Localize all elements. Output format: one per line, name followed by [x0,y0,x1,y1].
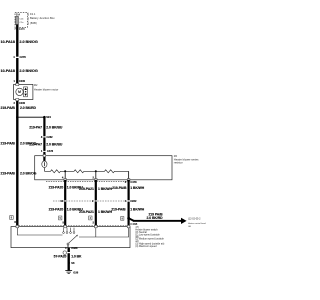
motor symbol M circle [16,88,23,95]
wire B segment C282 to switch box [95,202,97,227]
svg-text:C230: C230 [19,101,26,105]
wire W1 segment from BJB to connector C276 [16,25,18,57]
splice S6 [68,262,70,264]
svg-text:219-PA/B: 219-PA/B [1,141,16,145]
fuse F2.1 symbol [16,17,19,25]
tap wire to pin 3 [128,171,130,180]
switch internal rail [79,228,129,237]
svg-text:10-PA18: 10-PA18 [0,40,14,44]
wire W3 segment resistor to C282 [128,180,130,201]
in-line connector symbol [63,251,66,254]
svg-text:2.0 BK/BU: 2.0 BK/BU [46,126,63,130]
wire A segment C282 to switch box [64,202,66,227]
svg-text:C488: C488 [71,246,78,250]
switch output stub to W4 [67,245,69,248]
svg-text:C270: C270 [19,28,25,31]
connector C282 dashed line [53,200,127,202]
svg-text:M: M [18,90,21,94]
svg-text:2.0 BN/OG: 2.0 BN/OG [19,40,37,44]
motor box pin square bottom [16,99,19,101]
ground wire W4 segment 2 [68,253,70,270]
heater blower series resistor box [35,156,172,180]
svg-text:(1) Low speed (outside: (1) Low speed (outside [135,233,160,236]
svg-text:C282: C282 [46,135,53,139]
svg-text:(12-02-05-2: (12-02-05-2 [188,218,201,221]
svg-text:2.0 BK/RD: 2.0 BK/RD [20,106,37,110]
junction dot tap M2 [95,170,97,172]
svg-text:C478: C478 [47,149,54,153]
svg-text:219-PA21: 219-PA21 [79,210,94,214]
svg-text:219-PA/B: 219-PA/B [112,186,127,190]
svg-text:57-PA20: 57-PA20 [54,255,67,259]
svg-text:Battery Junction Box: Battery Junction Box [30,16,55,20]
svg-text:219-PA/B: 219-PA/B [111,208,126,212]
tap wire to pin 4 [64,171,66,180]
svg-text:30A: 30A [16,13,21,16]
wire A segment resistor to C282 [64,180,66,201]
svg-text:C282: C282 [130,199,137,203]
svg-text:219-PA20: 219-PA20 [49,185,64,189]
wire W2 segment S24 to C282 [43,117,45,136]
motor thermal element [24,87,28,97]
svg-text:resistor: resistor [174,161,183,165]
switch wiper lever [67,243,69,245]
switch internal stub from wire B [95,228,97,237]
svg-text:(BJB): (BJB) [30,21,37,25]
svg-text:C230: C230 [19,79,26,83]
svg-text:F2.1: F2.1 [30,12,36,16]
svg-text:S6: S6 [71,261,75,265]
resistor box pin squares bottom [64,179,67,182]
resistor box pin square top (pin 1) [43,155,46,157]
svg-text:C276: C276 [20,55,27,59]
svg-text:219-PA21: 219-PA21 [79,187,94,191]
svg-text:219-PA20: 219-PA20 [49,207,64,211]
motor box pin square top [16,83,19,85]
connector C478 dashed line below resistor box [46,180,127,182]
wire B boxed ref [89,216,92,220]
junction dot on W3 [127,217,130,220]
svg-text:2.0 BN/OG: 2.0 BN/OG [19,69,37,73]
heater blower motor box [14,84,33,99]
svg-text:219-PA/B: 219-PA/B [1,171,16,175]
arrowhead [181,218,187,224]
svg-text:2.0 BK/OG: 2.0 BK/OG [20,141,37,145]
tap wire to pin 2 [95,171,97,180]
svg-text:1 BK/WH: 1 BK/WH [98,187,113,191]
connector C276 pin 4 [15,56,20,58]
wire B segment resistor to C282 [95,180,97,201]
wire W1 segment from C276 to motor box [16,58,18,84]
splice S24 branch wire [17,116,44,118]
svg-text:1 BK/WH: 1 BK/WH [130,186,145,190]
svg-text:2.0 BK/RD: 2.0 BK/RD [147,216,164,220]
connector C488 dashed line [16,224,130,226]
wire W2 segment C478 into resistor box [43,152,45,161]
svg-text:10-PA18: 10-PA18 [0,69,14,73]
thermal limiter [42,161,47,168]
wire W3 boxed ref [121,217,124,221]
thick branch wire to heater control head [129,218,134,221]
svg-text:219-PA7: 219-PA7 [29,126,42,130]
svg-text:2.0 BK/BU: 2.0 BK/BU [46,142,63,146]
svg-text:(2) Medium speed (outside: (2) Medium speed (outside [135,238,164,241]
svg-text:M2: M2 [34,84,38,87]
svg-text:(4) Maximum speed: (4) Maximum speed [135,245,157,248]
switch box pin squares on top edge [16,225,19,227]
wire W1 segment from motor box to switch box [16,100,18,227]
svg-text:C478: C478 [130,180,137,184]
svg-text:2.0 BK/OG: 2.0 BK/OG [20,171,37,175]
battery junction box dashed outline [15,12,27,27]
junction dot tap M1 [64,170,66,172]
ground G26 symbol [65,270,72,272]
wire W2 segment C282 to C478 [43,137,45,151]
ground wire W4 segment 1 [68,248,70,252]
svg-text:1.0 BK: 1.0 BK [71,255,82,259]
switch internal feed wire from W1 [17,228,62,235]
svg-text:Heater control head: Heater control head [188,222,206,225]
svg-text:1 BK/WH: 1 BK/WH [130,208,145,212]
svg-text:219-PA/B: 219-PA/B [1,106,16,110]
wire A boxed ref [59,216,62,220]
svg-text:S24: S24 [46,115,51,119]
svg-text:Heater blower motor: Heater blower motor [34,87,58,91]
heater blower switch box [11,227,130,248]
resistor conductor with zigzag elements [44,170,128,173]
wire W3 segment C282 to switch box [128,202,130,227]
switch contact stubs and circles [63,228,65,232]
wire W1 boxed ref [10,216,14,220]
svg-text:G26: G26 [73,270,78,274]
